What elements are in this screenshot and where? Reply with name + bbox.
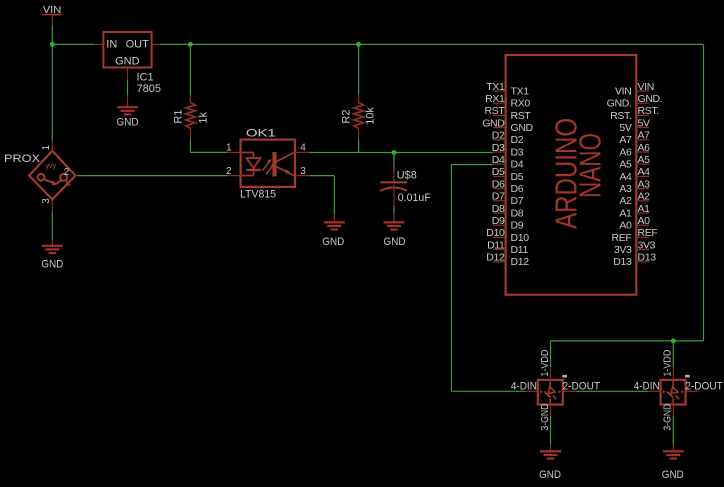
svg-text:0.01uF: 0.01uF <box>398 192 431 204</box>
svg-text:A6: A6 <box>638 142 651 154</box>
svg-text:A2: A2 <box>619 195 632 207</box>
supply VIN <box>42 5 61 26</box>
ground capacitor <box>393 214 395 222</box>
svg-text:U$8: U$8 <box>397 169 417 181</box>
svg-text:1-VDD: 1-VDD <box>662 349 674 376</box>
wire D4 to LED1 DIN <box>451 390 525 392</box>
wire capacitor gnd <box>393 206 395 214</box>
pin D10 left <box>486 227 529 244</box>
pin REF right <box>612 227 658 244</box>
svg-text:PROX: PROX <box>4 153 41 165</box>
svg-text:R1: R1 <box>173 110 185 124</box>
wire LED2 VDD v <box>672 341 674 368</box>
sensor PROX <box>4 140 77 211</box>
svg-text:D8: D8 <box>492 203 505 215</box>
svg-text:A4: A4 <box>638 166 651 178</box>
svg-text:D10: D10 <box>511 232 530 244</box>
ground symbol capacitor <box>384 222 405 229</box>
svg-text:7805: 7805 <box>137 83 161 95</box>
pin A7 right <box>619 130 650 147</box>
ground symbol LED2 <box>663 451 684 458</box>
svg-text:D8: D8 <box>511 207 524 219</box>
svg-text:VIN: VIN <box>615 85 631 97</box>
pin GND. right <box>607 93 663 110</box>
svg-text:D13: D13 <box>638 252 657 264</box>
svg-text:GND: GND <box>662 469 684 481</box>
wire VIN vertical <box>51 26 53 141</box>
svg-text:GND.: GND. <box>638 93 663 105</box>
svg-text:D5: D5 <box>511 171 524 183</box>
svg-text:D3: D3 <box>492 142 505 154</box>
svg-text:GND.: GND. <box>607 98 632 110</box>
pin D12 left <box>486 252 529 269</box>
node D3 capacitor junction <box>392 150 397 155</box>
pin D6 left <box>492 178 524 195</box>
wire VDD rail bottom <box>551 340 704 342</box>
wire top rail <box>160 43 703 45</box>
pin D13 right <box>613 252 656 269</box>
svg-text:D6: D6 <box>492 178 505 190</box>
svg-text:A1: A1 <box>638 203 651 215</box>
svg-text:1: 1 <box>226 143 232 154</box>
ground symbol OK1 <box>324 222 345 229</box>
wire R1 to OK1 pin1 v <box>189 140 191 153</box>
pin A0 right <box>619 215 650 232</box>
op-amp U1 Arduino Nano module <box>506 55 637 295</box>
svg-text:GND: GND <box>511 122 534 134</box>
ground LED1 <box>550 444 552 451</box>
svg-text:A3: A3 <box>638 178 651 190</box>
svg-text:3: 3 <box>300 166 306 177</box>
optocoupler OK1 LTV815 <box>226 128 309 201</box>
svg-text:GND: GND <box>384 236 406 248</box>
pin GND left <box>482 117 533 134</box>
wire R1 to OK1 pin1 h <box>190 151 227 153</box>
svg-text:D11: D11 <box>511 244 529 256</box>
pin D11 left <box>487 239 528 256</box>
svg-text:D3: D3 <box>511 146 524 158</box>
ground symbol LED1 <box>540 451 561 458</box>
svg-text:A7: A7 <box>619 134 632 146</box>
capacitor U$8 0.01uF <box>380 169 431 206</box>
pin D7 left <box>492 191 524 208</box>
svg-text:5V: 5V <box>638 117 650 129</box>
svg-text:GND: GND <box>322 236 344 248</box>
svg-text:D9: D9 <box>511 220 524 232</box>
svg-text:RST: RST <box>511 110 532 122</box>
wire LED1 gnd <box>550 416 552 445</box>
svg-text:D11: D11 <box>487 239 505 251</box>
svg-text:D2: D2 <box>511 134 524 146</box>
wire R2 bottom <box>358 140 360 153</box>
svg-text:GND: GND <box>41 259 63 271</box>
svg-text:LTV815: LTV815 <box>240 188 276 200</box>
LED LED1 WS2812 <box>511 349 600 430</box>
svg-text:RX0: RX0 <box>511 98 531 110</box>
pin TX1 left <box>486 81 529 98</box>
wire OK1 pin4 to D3 <box>309 152 493 154</box>
wire top rail to R2 <box>358 44 360 94</box>
wire LED1 DOUT to LED2 DIN <box>576 390 648 392</box>
svg-text:D7: D7 <box>511 195 524 207</box>
pin D5 left <box>492 166 524 183</box>
pin A4 right <box>619 166 650 183</box>
svg-text:RST.: RST. <box>610 110 631 122</box>
pin A3 right <box>619 178 650 195</box>
node R2 top junction <box>356 42 361 47</box>
svg-text:D10: D10 <box>486 227 505 239</box>
svg-text:IC1: IC1 <box>137 71 154 83</box>
svg-text:5V: 5V <box>619 122 631 134</box>
wire top rail to R1 <box>189 44 191 94</box>
svg-text:GND: GND <box>482 117 505 129</box>
svg-text:10k: 10k <box>365 107 377 125</box>
svg-text:GND: GND <box>117 117 139 129</box>
ground OK1 <box>333 214 335 222</box>
wire PROX gnd <box>51 211 53 240</box>
wire IC1 gnd <box>127 80 129 95</box>
svg-text:NANO: NANO <box>573 133 608 198</box>
svg-text:1: 1 <box>41 144 52 150</box>
pin VIN right <box>615 81 654 98</box>
svg-text:A5: A5 <box>638 154 651 166</box>
svg-text:4-DIN: 4-DIN <box>511 381 537 393</box>
svg-text:D12: D12 <box>511 256 530 268</box>
resistor R1 1k <box>173 95 210 140</box>
svg-text:A0: A0 <box>619 220 632 232</box>
node R1 top junction <box>188 42 193 47</box>
wire VIN to IC1 IN <box>52 43 94 45</box>
svg-text:A3: A3 <box>619 183 632 195</box>
wire OK1 pin3 h <box>309 175 334 177</box>
resistor R2 10k <box>341 95 377 140</box>
wire right rail vertical <box>703 44 705 341</box>
svg-text:A6: A6 <box>619 146 632 158</box>
svg-text:A5: A5 <box>619 159 632 171</box>
pin D2 left <box>492 130 524 147</box>
svg-text:R2: R2 <box>341 110 353 124</box>
pin 5V right <box>619 117 650 134</box>
svg-text:D2: D2 <box>492 130 505 142</box>
svg-text:A1: A1 <box>619 207 632 219</box>
svg-text:3-GND: 3-GND <box>539 403 551 430</box>
svg-text:2: 2 <box>226 166 232 177</box>
LED LED2 WS2812 <box>634 349 723 430</box>
svg-text:D12: D12 <box>486 252 505 264</box>
pin RST left <box>485 105 532 122</box>
svg-text:TX1: TX1 <box>486 81 505 93</box>
svg-text:A7: A7 <box>638 130 651 142</box>
node LED2 VDD junction <box>671 339 676 344</box>
svg-text:OK1: OK1 <box>246 128 276 140</box>
svg-text:1-VDD: 1-VDD <box>539 349 551 376</box>
svg-text:D13: D13 <box>613 256 632 268</box>
pin 3V3 right <box>614 239 656 256</box>
pin D4 left <box>492 154 524 171</box>
ground IC1 <box>127 95 129 107</box>
svg-text:RST.: RST. <box>638 105 659 117</box>
svg-text:1k: 1k <box>198 111 210 123</box>
pin A6 right <box>619 142 650 159</box>
node VIN junction <box>50 42 55 47</box>
svg-text:A0: A0 <box>638 215 651 227</box>
svg-text:D4: D4 <box>511 159 524 171</box>
voltage regulator IC1 7805 <box>95 32 161 95</box>
pin A1 right <box>619 203 650 220</box>
svg-text:GND: GND <box>115 56 140 68</box>
ground symbol PROX <box>42 246 63 253</box>
wire D4 h <box>451 164 492 166</box>
ground PROX <box>51 240 53 246</box>
svg-text:2: 2 <box>64 167 70 178</box>
svg-text:4: 4 <box>300 143 306 154</box>
ground symbol IC1 <box>117 107 138 114</box>
pin A5 right <box>619 154 650 171</box>
pin D9 left <box>492 215 524 232</box>
wire junction to capacitor <box>393 153 395 171</box>
svg-text:REF: REF <box>638 227 658 239</box>
svg-text:RST: RST <box>485 105 506 117</box>
svg-text:VIN: VIN <box>638 81 654 93</box>
svg-text:2-DOUT: 2-DOUT <box>685 381 723 393</box>
wire LED2 gnd <box>672 416 674 445</box>
wire D4 vertical <box>450 165 452 392</box>
svg-text:GND: GND <box>539 469 561 481</box>
svg-text:RX1: RX1 <box>485 93 505 105</box>
svg-text:A2: A2 <box>638 191 651 203</box>
pin A2 right <box>619 191 650 208</box>
svg-text:D4: D4 <box>492 154 505 166</box>
svg-text:REF: REF <box>612 232 632 244</box>
pin D3 left <box>492 142 524 159</box>
pin D8 left <box>492 203 524 220</box>
svg-text:3-GND: 3-GND <box>662 403 674 430</box>
wire OK1 pin3 v <box>333 176 335 215</box>
svg-text:D7: D7 <box>492 191 505 203</box>
ground LED2 <box>672 444 674 451</box>
svg-text:3V3: 3V3 <box>638 239 656 251</box>
svg-text:IN: IN <box>106 38 117 50</box>
svg-text:D9: D9 <box>492 215 505 227</box>
svg-text:D5: D5 <box>492 166 505 178</box>
svg-text:3: 3 <box>41 198 52 204</box>
pin RX0 left <box>485 93 530 110</box>
svg-text:OUT: OUT <box>126 38 150 50</box>
svg-text:A4: A4 <box>619 171 632 183</box>
pin RST. right <box>610 105 659 122</box>
svg-text:3V3: 3V3 <box>614 244 632 256</box>
svg-text:yvy: yvy <box>46 163 57 170</box>
wire PROX to OK1 pin2 <box>77 175 227 177</box>
svg-text:D6: D6 <box>511 183 524 195</box>
wire LED1 VDD v <box>550 341 552 368</box>
svg-text:TX1: TX1 <box>511 85 530 97</box>
